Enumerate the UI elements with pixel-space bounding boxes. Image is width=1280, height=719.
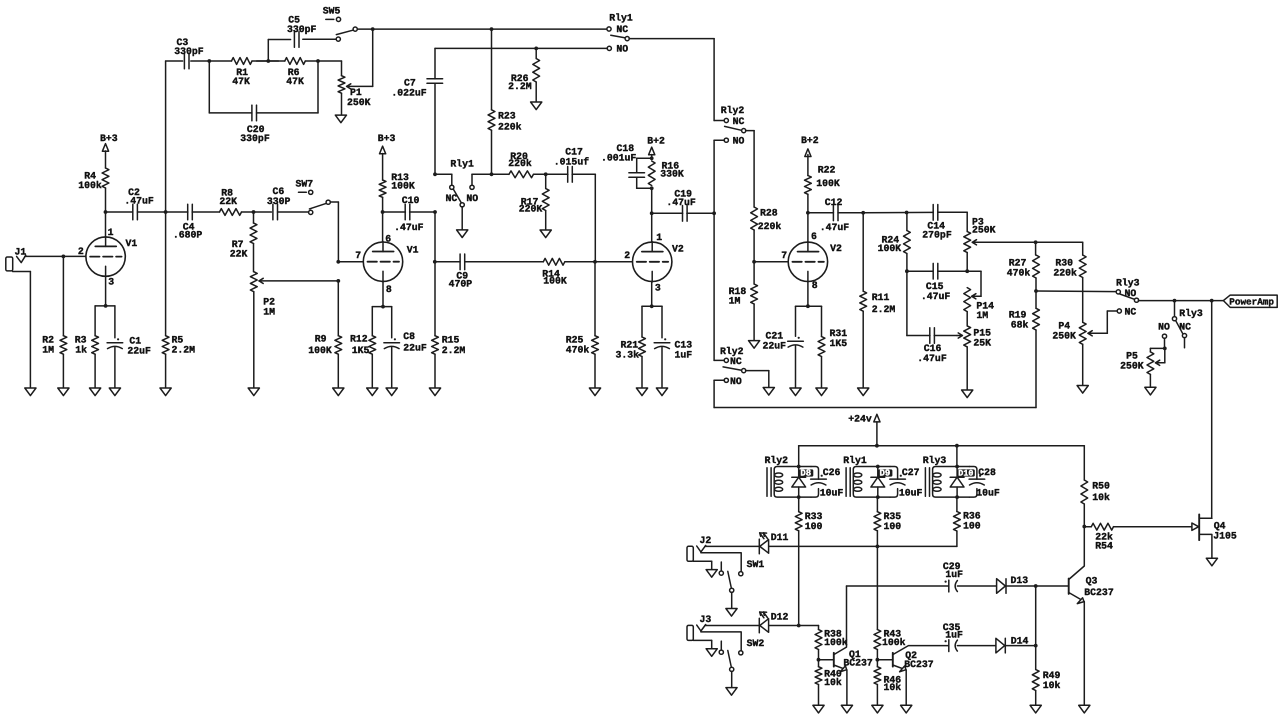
svg-text:22K: 22K [219,196,237,207]
triode V1b [355,233,418,294]
svg-text:Rly2: Rly2 [765,455,789,466]
wire P5 feed [1150,338,1166,352]
diode D11 (LED) [759,532,788,554]
svg-text:470k: 470k [566,345,590,356]
svg-text:100K: 100K [308,345,332,356]
svg-text:.47uF: .47uF [124,195,154,206]
svg-text:V2: V2 [830,243,842,254]
svg-text:470P: 470P [449,279,473,290]
svg-text:100k: 100k [882,637,906,648]
svg-text:Rly3: Rly3 [1116,278,1140,289]
wire Rly2 NO to bus [713,380,715,407]
wire V1b cathode [372,281,391,338]
transistor Q3 [1069,527,1114,706]
svg-text:R50: R50 [1092,481,1110,492]
svg-text:100: 100 [805,521,823,532]
wire J3 sleeve switch [701,631,741,651]
ground R40 [813,705,824,713]
svg-text:22uF: 22uF [127,346,151,357]
resistor R43 [874,628,906,659]
resistor R35 [874,497,901,546]
wire R6 right to P1 [316,59,341,63]
svg-text:47K: 47K [286,76,304,87]
svg-text:Q3: Q3 [1086,575,1098,586]
node V2b grid [752,260,756,264]
potentiometer P14 [964,288,994,326]
wire C35 to D14 [957,645,996,647]
resistor R6 [268,58,317,87]
transistor Q4 (JFET) [1192,514,1237,558]
ground R11 [858,388,869,396]
svg-text:.47uF: .47uF [820,222,850,233]
resistor R9 [308,281,341,388]
node C15 right [965,269,969,273]
svg-text:D9: D9 [880,469,891,479]
power B+3 (V1a) [100,133,118,168]
svg-text:V1: V1 [407,244,419,255]
triode V2b [781,231,842,291]
capacitor C8 [384,331,427,388]
svg-text:NO: NO [730,376,742,387]
wire V1b grid [336,260,363,283]
svg-text:1uF: 1uF [945,569,963,580]
node V1a plate [104,210,108,214]
svg-text:D12: D12 [771,611,789,622]
relay Rly1 coil [843,455,905,499]
wire Rly1 NO to R20 [472,172,506,176]
wire C5 to SW5 [303,38,336,40]
wire PowerAmp to Q4 [1211,301,1213,519]
capacitor C4 [166,204,220,240]
wire Rly1 NC out [629,38,714,40]
ground C21 [790,388,801,396]
svg-text:.001uF: .001uF [601,152,636,163]
ground R25 [589,388,600,396]
wire J1 sleeve [13,272,31,389]
wire J3 sleeve gnd [693,640,711,648]
svg-text:D10: D10 [958,469,973,479]
wire V2a grid [433,260,460,264]
svg-text:Rly1: Rly1 [843,455,867,466]
svg-text:V1: V1 [126,238,138,249]
node R16 bottom [650,186,654,213]
potentiometer P2 [250,272,338,388]
ground R3 [90,388,101,396]
wire D14 to R49 [1005,644,1037,648]
svg-text:8: 8 [812,280,818,291]
ground R18 [749,341,760,349]
wire J3 to D12 [705,625,760,627]
ground P4 [1077,386,1088,394]
resistor R7 [230,212,257,272]
wire Rly1 NO [435,47,607,51]
node R1 left junction [207,59,211,63]
capacitor C26 label [820,467,844,498]
svg-text:R23: R23 [498,110,516,121]
ground Q1 [841,705,852,713]
svg-text:B+3: B+3 [100,133,118,144]
svg-text:D13: D13 [1011,575,1029,586]
power B+3 (V1b) [378,133,396,180]
capacitor C14 [922,205,967,241]
resistor R23 [488,110,522,175]
wire relay bus [799,444,1085,480]
wire V2b anode [807,213,809,243]
wire ground bus [714,407,1036,409]
node R16 top [650,156,654,160]
svg-text:1K5: 1K5 [830,338,848,349]
wire R27 to Rly3 NO [1036,290,1117,293]
ground SW1 [726,609,737,617]
capacitor C20 [240,105,270,144]
ground C1 [109,388,120,396]
resistor R5 [162,212,195,388]
resistor R13 [379,172,415,212]
wire R23 feed [491,29,493,110]
svg-text:330P: 330P [267,196,291,207]
switch SW2 [719,638,764,688]
capacitor C10 [383,195,435,233]
svg-text:100K: 100K [391,180,415,191]
ground Q3 [1079,705,1090,713]
capacitor C19 [652,188,714,221]
svg-text:J105: J105 [1213,531,1237,542]
svg-text:NC: NC [446,193,458,204]
wire R14 to grid [565,260,632,264]
svg-text:1M: 1M [976,310,988,321]
resistor R26 [508,48,539,102]
svg-text:100K: 100K [543,276,567,287]
wire P3 wiper bus [1034,240,1083,255]
resistor R17 [519,174,549,230]
jack J1 [6,246,27,271]
svg-text:D11: D11 [771,532,789,543]
node C12 out [861,211,865,215]
svg-text:D8: D8 [800,469,811,479]
svg-text:BC237: BC237 [904,659,934,670]
svg-text:1uF: 1uF [945,630,963,641]
switch SW5 [323,6,358,42]
relay contact Rly1 (signal) [435,159,478,207]
svg-text:R12: R12 [350,333,368,344]
svg-text:SW7: SW7 [296,178,314,189]
wire J2 to D11 [705,545,760,547]
svg-text:.022uF: .022uF [391,87,426,98]
svg-text:2.2M: 2.2M [442,345,466,356]
wire V1b anode [382,212,384,242]
resistor R11 [860,213,896,388]
svg-text:6: 6 [385,233,391,244]
svg-text:100: 100 [884,521,902,532]
resistor R28 [751,207,782,262]
capacitor C27 label [899,467,923,498]
resistor R15 [432,212,466,388]
capacitor C7 [391,48,442,174]
node C10 out [433,210,437,214]
svg-text:47K: 47K [232,76,250,87]
svg-text:NO: NO [733,136,745,147]
jack J3 [687,614,711,640]
capacitor C12 [808,197,863,233]
svg-text:R54: R54 [1095,540,1113,551]
ground R49 [1030,705,1041,713]
svg-text:100K: 100K [878,243,902,254]
wire P14 wiper feed [967,271,981,296]
svg-text:2: 2 [624,250,630,261]
wire Rly2 NO down [713,140,715,213]
svg-text:.47uF: .47uF [917,353,947,364]
ground Q4 [1206,558,1217,566]
ground R12 [367,388,378,396]
svg-text:D14: D14 [1011,635,1029,646]
svg-text:NO: NO [616,44,628,55]
svg-text:220k: 220k [758,221,782,232]
svg-text:330pF: 330pF [174,46,204,57]
node R8/C6/R7 [242,210,272,214]
svg-text:22uF: 22uF [403,342,427,353]
resistor R33 [795,497,822,625]
resistor R46 [874,660,901,706]
node R27 bottom [1034,289,1038,293]
resistor R20 [492,151,539,178]
svg-text:100k: 100k [824,637,848,648]
svg-text:BC237: BC237 [1084,587,1114,598]
resistor R19 [1009,291,1040,408]
ground J3 [706,649,717,657]
svg-text:3: 3 [108,277,114,288]
wire D13 to Q3 [1006,584,1069,588]
wire C29 to D13 [957,585,996,587]
ground P2 [248,388,259,396]
svg-text:C28: C28 [978,467,996,478]
svg-text:1k: 1k [75,345,87,356]
ground J1 [25,388,36,396]
resistor R38 [815,626,848,660]
power +24v [848,413,880,445]
svg-text:2.2M: 2.2M [872,304,896,315]
power B+2 (V2a) [647,136,665,159]
svg-text:NC: NC [730,356,742,367]
diode D10 label [957,469,975,479]
svg-text:330pF: 330pF [287,24,317,35]
ground R9 [333,388,344,396]
svg-text:1M: 1M [729,296,741,307]
svg-text:NO: NO [1158,322,1170,333]
tag PowerAmp [1223,295,1277,308]
capacitor C13 [654,338,692,388]
capacitor C28 label [976,467,1000,498]
wire PowerAmp net [1138,299,1223,303]
svg-text:220k: 220k [508,158,532,169]
wire P1 wiper feed [372,29,374,86]
svg-text:Rly3: Rly3 [1179,308,1203,319]
wire D13-D14 link [1035,586,1037,646]
svg-text:1: 1 [656,232,662,243]
svg-text:B+2: B+2 [647,136,665,147]
switch SW7 [296,178,331,214]
transistor Q1 [817,586,873,705]
wire R1-R6 [257,59,279,63]
wire J1 to grid [25,255,86,259]
ground R31 [816,388,827,396]
triode V2a [624,232,684,294]
resistor R50 [1081,480,1110,527]
svg-text:10uF: 10uF [899,488,923,499]
jack J2 [687,535,711,561]
resistor R25 [566,262,599,388]
svg-text:470k: 470k [1007,267,1031,278]
svg-text:+24v: +24v [848,413,872,424]
svg-text:3: 3 [655,283,661,294]
svg-text:SW2: SW2 [747,638,765,649]
resistor R36 [954,497,981,546]
resistor R27 [1007,242,1040,291]
capacitor C17 [554,146,589,182]
potentiometer P3 [964,212,1083,271]
wire SW7 to V1b grid [330,202,338,262]
svg-text:10uF: 10uF [820,488,844,499]
svg-text:22uF: 22uF [763,340,787,351]
wire C17 to V2a grid [572,174,595,261]
ground P1 [335,115,346,123]
capacitor C2 [106,187,166,220]
ground Rly1 arm [457,207,468,238]
relay contact Rly3 (mute) [1158,301,1203,348]
svg-text:.015uf: .015uf [554,157,589,168]
wire V2b grid [754,261,787,263]
diode D14 [996,635,1029,653]
diode D12 (LED) [759,611,788,633]
svg-text:1K5: 1K5 [352,345,370,356]
svg-text:B+3: B+3 [378,133,396,144]
wire Rly2 arm to R28 [746,131,755,207]
svg-text:SW1: SW1 [747,559,765,570]
svg-text:330K: 330K [660,169,684,180]
resistor R4 [78,168,109,212]
resistor R18 [729,262,758,341]
node R17 tap [538,172,568,176]
svg-text:BC237: BC237 [843,657,873,668]
svg-text:2.2M: 2.2M [508,81,532,92]
diode D9 label [878,469,892,479]
wire V2a cathode [642,281,662,337]
svg-text:SW5: SW5 [323,6,341,17]
resistor R3 [75,335,99,388]
switch SW1 [719,559,764,609]
resistor R40 [815,660,842,706]
ground Q2 [901,705,912,713]
power B+2 (V2b) [801,135,819,157]
relay contact Rly3 (signal) [1107,278,1139,334]
svg-text:3.3k: 3.3k [616,349,640,360]
svg-text:Rly1: Rly1 [450,159,474,170]
ground SW2 [726,688,737,696]
svg-text:2: 2 [78,246,84,257]
potentiometer P4 [1052,321,1107,386]
svg-text:B+2: B+2 [801,135,819,146]
wire C16 left leg [907,271,930,335]
svg-text:.47uF: .47uF [394,222,424,233]
svg-text:68k: 68k [1011,319,1029,330]
node V1b plate [381,210,385,214]
resistor R49 [1032,646,1060,706]
resistor R1 [209,58,268,87]
svg-text:V2: V2 [672,243,684,254]
ground R21 [636,388,647,396]
svg-text:250K: 250K [1052,331,1076,342]
svg-text:250K: 250K [347,97,371,108]
capacitor C35 [943,622,963,651]
wire C20 right leg [257,61,319,113]
svg-text:7: 7 [781,250,787,261]
wire J2 sleeve gnd [693,561,711,569]
svg-text:NC: NC [1179,322,1191,333]
svg-text:6: 6 [811,231,817,242]
wire V1a cathode [95,277,115,338]
svg-text:R11: R11 [872,292,890,303]
wire SW5 to Rly1 NC [357,27,607,31]
wire D12 out [769,624,819,628]
capacitor C3 [174,37,204,69]
svg-text:Rly3: Rly3 [923,455,947,466]
svg-text:100: 100 [963,521,981,532]
svg-text:330pF: 330pF [240,133,270,144]
relay Rly2 coil [765,455,827,499]
resistor R12 [350,333,376,388]
resistor R22 [805,155,840,213]
wire D11 out [769,545,957,547]
svg-text:10k: 10k [884,682,902,693]
wire R54 to Q4 [1114,526,1192,528]
svg-text:R28: R28 [760,208,778,219]
capacitor C21 [763,330,804,388]
ground Rly2 arm [763,388,774,396]
resistor R14 [542,258,567,286]
node C15 left [905,269,933,273]
svg-text:2.2M: 2.2M [172,345,196,356]
resistor R8 [219,188,241,216]
svg-text:10k: 10k [824,677,842,688]
svg-text:1M: 1M [42,345,54,356]
svg-text:C27: C27 [902,467,920,478]
svg-text:C12: C12 [825,197,843,208]
wire Rly1NCout down [713,39,715,121]
svg-text:.680P: .680P [173,229,203,240]
wire Rly2NO chain down [713,213,715,360]
relay Rly3 coil [923,455,985,499]
wire C5 branch [268,40,290,62]
node C7 bottom [433,172,437,176]
wire R35 down [876,546,878,629]
svg-text:Rly2: Rly2 [721,105,745,116]
svg-text:220k: 220k [1053,267,1077,278]
svg-text:10k: 10k [1043,680,1061,691]
svg-text:1M: 1M [263,306,275,317]
node R50/R54 [1082,525,1086,529]
relay contact Rly1 (top) [607,13,633,55]
capacitor C29 [943,561,963,592]
resistor R31 [818,328,847,388]
ground P5 [1145,387,1156,395]
wire C12 to C14 [863,211,933,215]
wire C3 feedback wire [166,60,210,62]
resistor R30 [1053,255,1086,322]
wire Rly2 arm gnd [746,371,769,388]
ground R26 [531,102,542,110]
wire V2a anode [651,213,653,242]
svg-text:NO: NO [466,193,478,204]
ground R46 [872,705,883,713]
